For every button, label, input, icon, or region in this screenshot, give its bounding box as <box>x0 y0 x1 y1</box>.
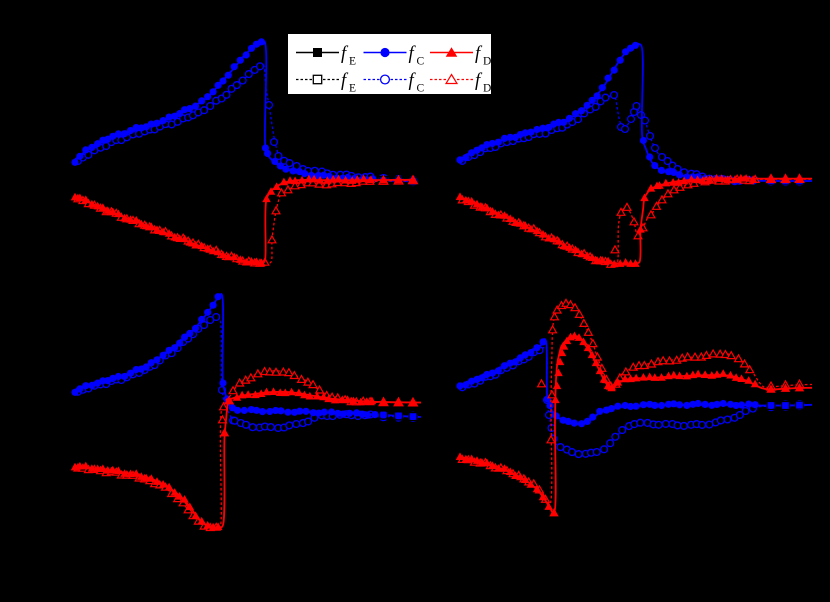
top-left blue dashed curve f_C <box>75 63 418 186</box>
top-left red dashed curve f_D <box>74 176 417 266</box>
legend box <box>288 34 492 95</box>
bottom-right red solid curve f_D <box>456 332 812 517</box>
bottom-left blue solid curve f_C <box>71 293 421 421</box>
legend entry solid f_D <box>430 44 491 68</box>
top-right blue solid curve f_C <box>456 42 812 185</box>
bottom-left red solid curve f_D <box>71 387 421 530</box>
legend entry solid f_E <box>296 44 356 68</box>
bottom-right red dashed curve f_D <box>458 299 812 504</box>
bottom-right blue solid curve f_C <box>456 338 812 427</box>
legend entry dashed f_D <box>430 71 491 95</box>
top-right red dashed curve f_D <box>458 175 812 268</box>
top-right red solid curve f_D <box>456 174 812 268</box>
legend entry dashed f_E <box>296 71 356 95</box>
legend entry dashed f_C <box>364 71 425 95</box>
bottom-right blue dashed curve f_C <box>459 347 812 458</box>
top-right blue dashed curve f_C <box>459 92 812 186</box>
bottom-left red dashed curve f_D <box>74 368 421 531</box>
bottom-left blue dashed curve f_C <box>75 314 422 432</box>
svg-text:E: E <box>349 56 356 68</box>
svg-text:D: D <box>483 83 491 95</box>
top-left red solid curve f_D <box>71 175 418 267</box>
svg-text:C: C <box>417 56 425 68</box>
legend entry solid f_C <box>364 44 425 68</box>
svg-text:E: E <box>349 83 356 95</box>
top-left blue solid curve f_C <box>71 38 417 185</box>
svg-text:C: C <box>417 83 425 95</box>
svg-text:D: D <box>483 56 491 68</box>
